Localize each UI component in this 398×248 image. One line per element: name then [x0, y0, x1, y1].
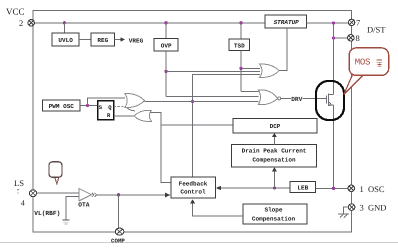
wire TSD drop — [240, 23, 242, 39]
block Feedback Control — [171, 177, 216, 198]
junction latch output node — [191, 100, 194, 103]
transistor MOSFET source lead — [329, 102, 334, 106]
block TSD — [229, 39, 250, 51]
wire PWM OSC to latch S — [80, 104, 98, 106]
junction TSD branch — [239, 67, 242, 70]
wire latch R input — [114, 115, 134, 117]
wire OTA output to Feedback arrow — [97, 193, 171, 198]
wire TSD lower vertical — [240, 51, 242, 92]
junction OVP branch — [164, 70, 167, 73]
junction PWM branch — [86, 104, 89, 107]
block REG — [91, 33, 115, 46]
wire PWM branch to pwm gate — [88, 98, 126, 106]
wire UVLO-REG — [79, 39, 91, 41]
block STARTUP — [265, 15, 307, 28]
label 3 GND — [360, 203, 387, 213]
wire DrainPeak to DCP arrow — [272, 133, 277, 145]
wire Q branch curve to reset gate — [127, 106, 136, 111]
label DRV — [291, 94, 303, 103]
wire pin8 net — [334, 37, 348, 39]
IC boundary rectangle — [33, 11, 352, 232]
pin COMP terminal — [115, 228, 124, 235]
svg-text:7: 7 — [356, 18, 360, 28]
wire OVP lower vertical — [165, 51, 167, 97]
svg-text:LS: LS — [14, 178, 24, 188]
bubble driver gate output — [278, 97, 281, 100]
wire latch output to protection OR gate — [193, 74, 261, 176]
source VL bar — [62, 219, 69, 221]
wire TSD to driver gate — [241, 91, 259, 93]
ground symbol — [338, 207, 349, 217]
svg-text:OTA: OTA — [78, 201, 89, 208]
callout bubble small tail — [55, 177, 59, 184]
label colon — [17, 189, 19, 194]
wire drain vertical — [333, 23, 335, 95]
svg-text:1: 1 — [360, 184, 364, 194]
svg-text:4: 4 — [21, 199, 25, 208]
svg-text:DCP: DCP — [270, 123, 281, 130]
junction drain-pin8 — [332, 36, 335, 39]
svg-text:COMP: COMP — [111, 238, 125, 245]
svg-text:DRV: DRV — [291, 96, 302, 103]
block PWM OSC — [43, 100, 81, 111]
label 1 OSC — [360, 184, 385, 194]
wire staircase to DCP input — [161, 124, 233, 126]
callout bubble small body — [49, 162, 62, 178]
junction COMP node — [117, 193, 120, 196]
wire branch up to DrainPeak arrow — [272, 167, 277, 188]
junction VCC-TSD — [239, 21, 242, 24]
junction drain-pin7 — [332, 21, 335, 24]
wire COMP drop — [118, 195, 120, 228]
pin 4 LS terminal — [30, 190, 37, 197]
or-gate driver U-DRV — [258, 90, 278, 105]
svg-text:Compensation: Compensation — [252, 216, 296, 223]
wire Slope to Feedback arrow — [190, 199, 243, 216]
transistor MOSFET gate bar — [326, 94, 328, 107]
junction VCC-OVP — [164, 21, 167, 24]
block OVP — [154, 39, 178, 52]
svg-text:Control: Control — [180, 189, 206, 196]
wire OVP to protection OR gate — [166, 70, 260, 72]
label MOS glyph — [377, 60, 383, 66]
wire source vertical — [333, 105, 335, 188]
svg-text:Compensation: Compensation — [252, 157, 296, 164]
svg-text:OSC: OSC — [368, 184, 385, 194]
wire VCC net — [35, 22, 266, 24]
wire TSD to protection OR gate — [241, 67, 260, 69]
wire pwm gate output to driver gate — [145, 100, 259, 102]
svg-text:VCC: VCC — [6, 7, 25, 17]
pin 7 terminal — [348, 19, 354, 25]
op-amp OTA — [79, 189, 91, 201]
wire LEB to Feedback arrow — [216, 186, 290, 191]
block DCP — [233, 119, 317, 133]
junction VCC-UVLO — [63, 21, 66, 24]
source VL lower mark — [63, 222, 68, 224]
wire OVP to driver gate — [166, 96, 259, 98]
pin 3 terminal — [348, 204, 355, 211]
annotation oval around MOSFET — [316, 81, 344, 120]
block Drain Peak Current Compensation — [231, 144, 316, 166]
wire OVP drop — [165, 23, 167, 39]
wire REG-VREG arrow — [115, 37, 126, 41]
wire STARTUP to pin7 — [307, 22, 349, 24]
scan artifact line bottom — [0, 242, 398, 244]
callout bubble MOS tail — [344, 75, 364, 95]
wire LS to OTA — [37, 192, 80, 194]
svg-text:STRATUP: STRATUP — [274, 19, 300, 26]
wire latch Q dashed — [114, 105, 126, 107]
junction LEB-DrainPeak — [273, 186, 276, 189]
pin 2 VCC terminal — [28, 20, 34, 26]
transistor MOSFET drain lead — [329, 94, 334, 96]
pin 8 terminal — [348, 35, 354, 41]
svg-text:UVLO: UVLO — [58, 37, 73, 44]
callout bubble MOS body — [349, 48, 388, 76]
svg-text:D/ST: D/ST — [367, 25, 386, 35]
wire protection gate to STARTUP — [279, 28, 287, 71]
wire LEB to pin1 — [316, 187, 349, 189]
wire VL reference branch — [66, 196, 79, 219]
svg-text:Feedback: Feedback — [179, 181, 208, 188]
svg-text:MOS: MOS — [355, 57, 370, 67]
svg-text:TSD: TSD — [234, 42, 245, 49]
block LEB — [290, 182, 316, 193]
svg-text:3: 3 — [360, 203, 364, 213]
latch SR flip-flop — [98, 101, 114, 120]
or-gate pwm U-PWM — [125, 94, 145, 108]
or-gate reset U-R mirrored — [134, 110, 151, 121]
pin 1 terminal — [348, 185, 354, 191]
svg-text:VREG: VREG — [129, 37, 144, 44]
wire UVLO drop — [63, 23, 65, 33]
svg-text:Slope: Slope — [264, 207, 282, 214]
svg-text:8: 8 — [356, 33, 360, 43]
svg-text:LEB: LEB — [297, 185, 308, 192]
block UVLO — [52, 33, 79, 46]
svg-text:REG: REG — [97, 37, 108, 44]
svg-text:VL(RBF): VL(RBF) — [34, 210, 60, 217]
junction source-pin1 — [332, 187, 335, 190]
svg-text:2: 2 — [19, 18, 23, 28]
op-amp OTA output chevrons — [92, 193, 97, 197]
svg-text:GND: GND — [368, 203, 386, 213]
svg-text:OVP: OVP — [161, 42, 172, 49]
svg-text:Drain Peak Current: Drain Peak Current — [242, 148, 307, 155]
block Slope Compensation — [243, 204, 307, 224]
wire driver gate to DRV — [281, 97, 327, 99]
or-gate protection U-PROT — [260, 64, 280, 77]
svg-text:PWM OSC: PWM OSC — [49, 103, 75, 110]
wire reset gate to DCP staircase — [151, 113, 171, 183]
